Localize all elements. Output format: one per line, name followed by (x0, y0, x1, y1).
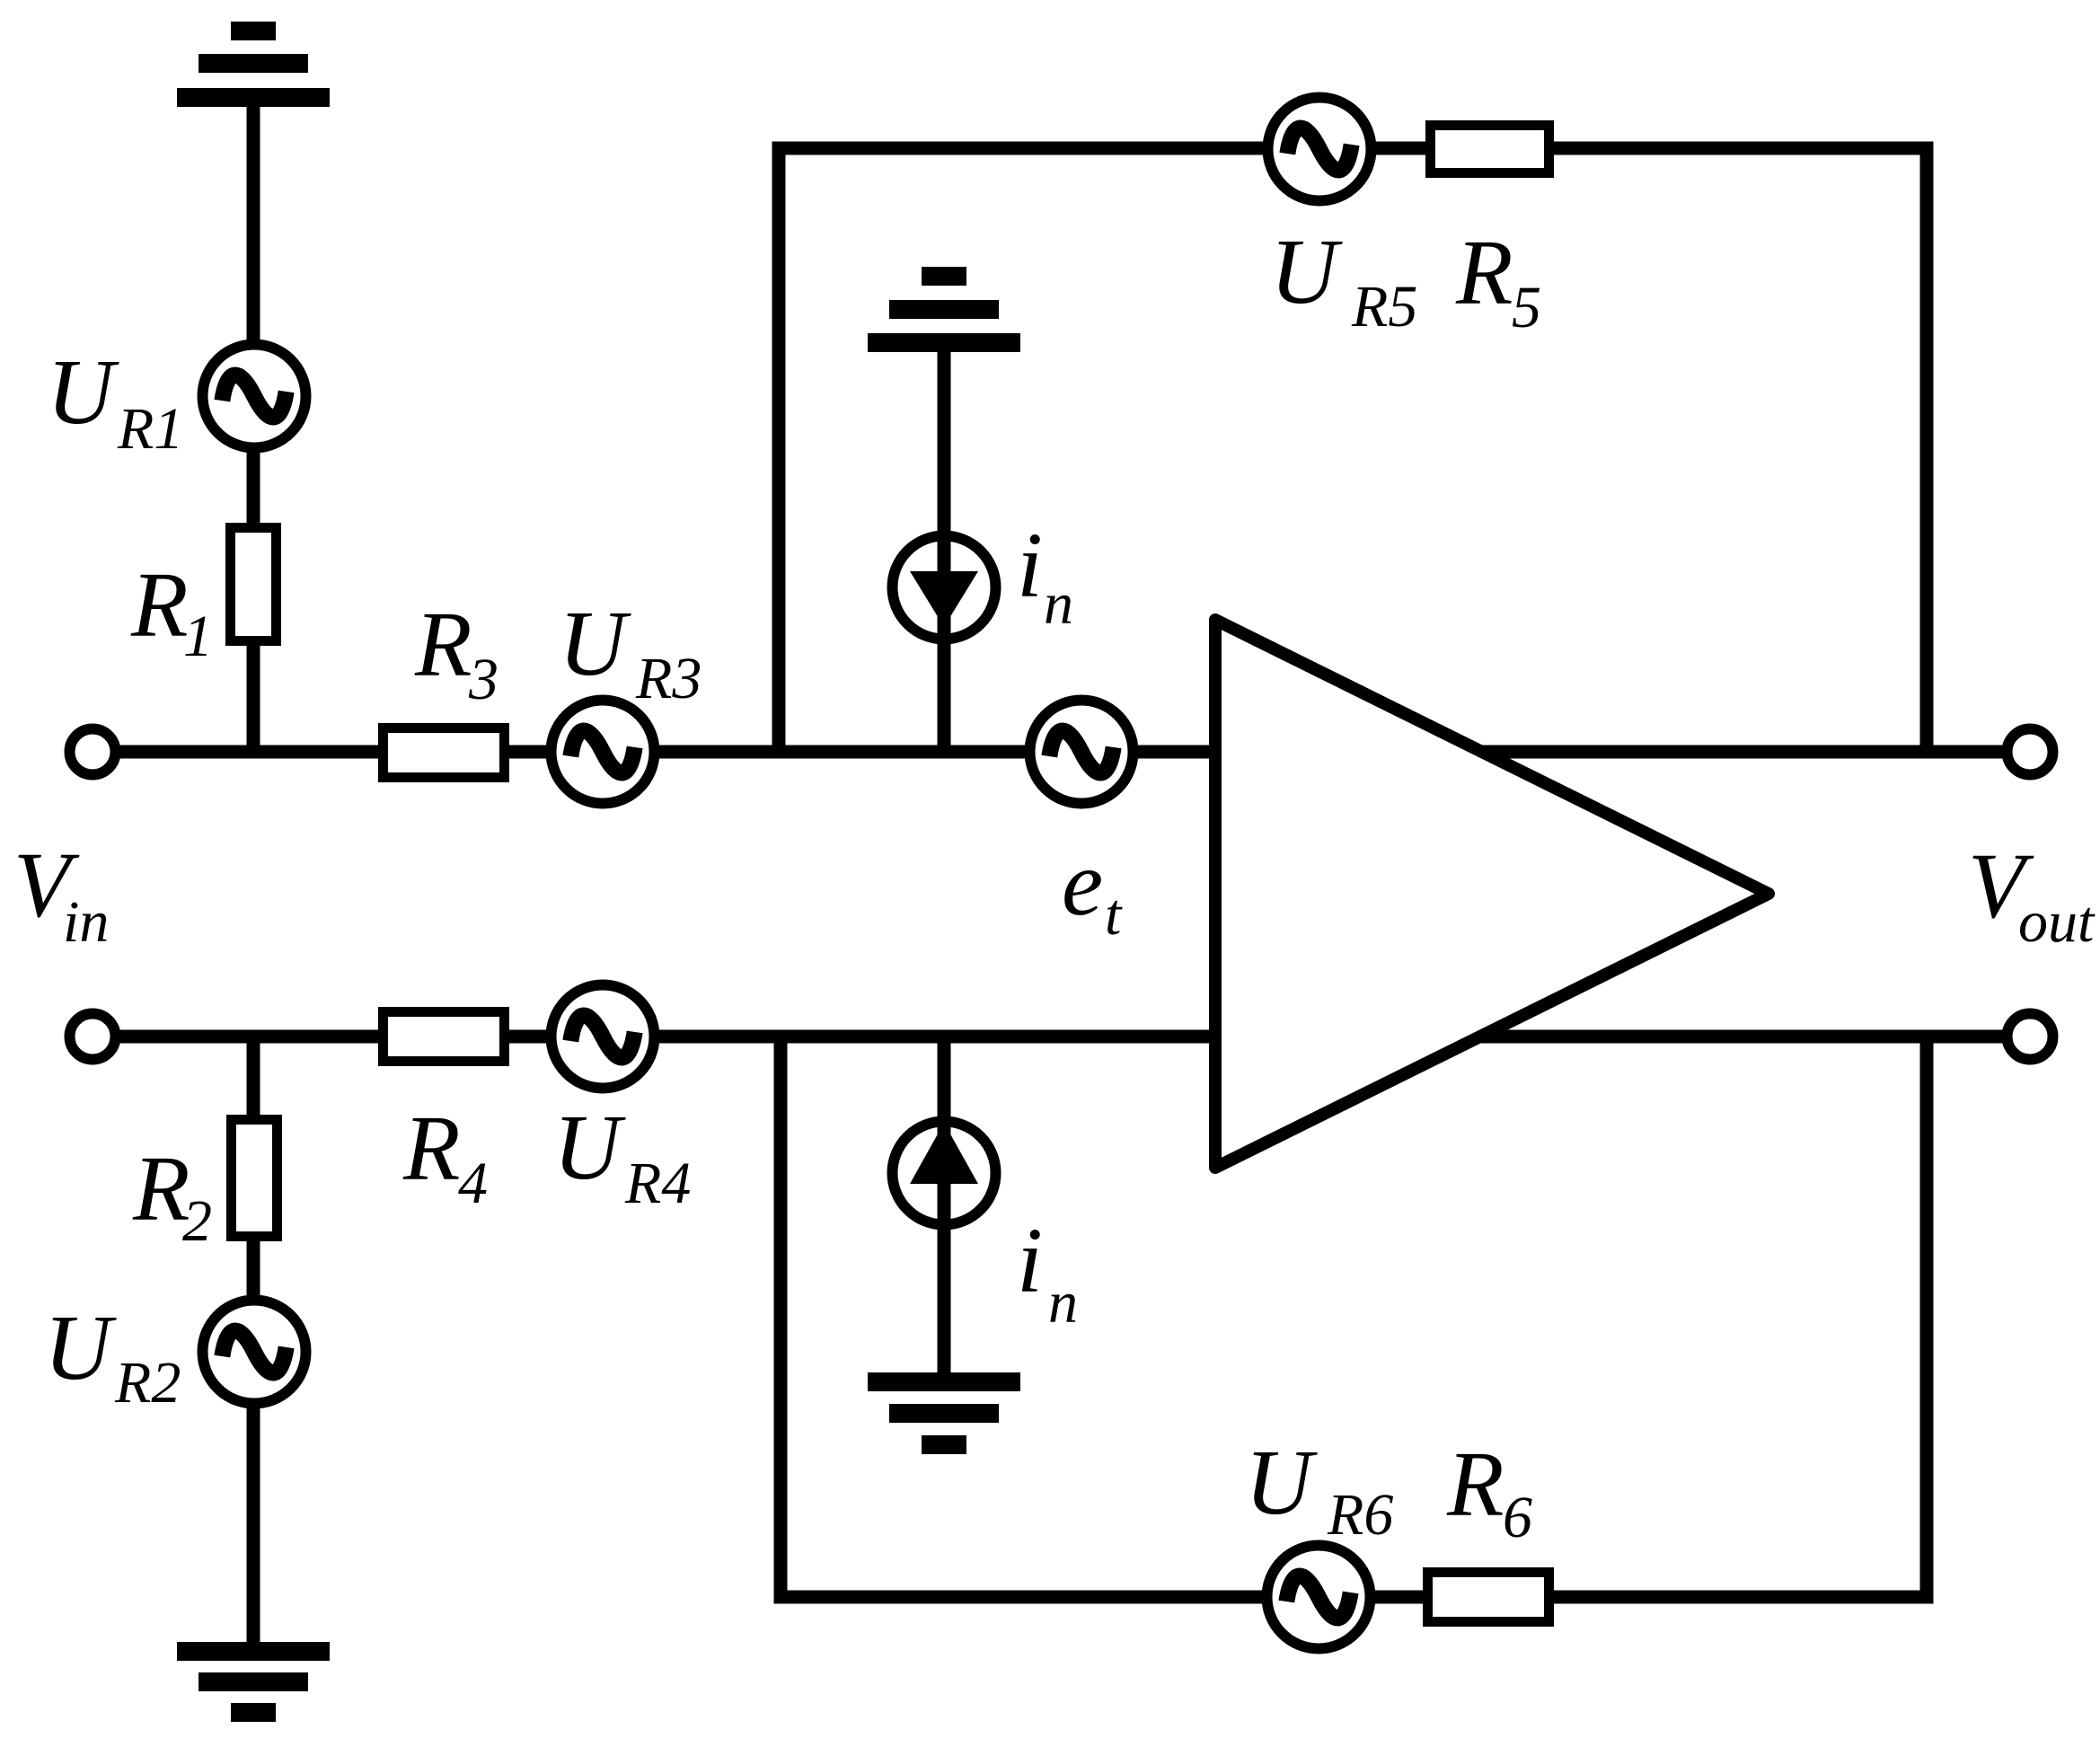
resistor R2 (232, 1120, 278, 1237)
svg-text:n: n (1044, 571, 1073, 637)
svg-text:R2: R2 (114, 1350, 181, 1416)
svg-text:U: U (1270, 220, 1343, 323)
terminal Vout+ (2007, 729, 2053, 775)
svg-text:5: 5 (1512, 275, 1541, 340)
wire R2 branch vertical (247, 1037, 260, 1654)
AC source U_R6 (1267, 1546, 1371, 1649)
wire in branch bottom vertical (938, 1037, 951, 1385)
terminal Vin+ (70, 729, 116, 775)
svg-text:U: U (1245, 1431, 1318, 1534)
ground bottom-left (177, 1642, 330, 1722)
current source in top (893, 536, 996, 640)
wire top output rail (1437, 746, 2030, 759)
resistor R4 (384, 1012, 505, 1062)
svg-text:R4: R4 (624, 1151, 691, 1216)
resistor R1 (231, 528, 277, 641)
svg-text:in: in (63, 889, 109, 955)
AC source U_R4 (551, 985, 655, 1089)
resistor R6 (1428, 1573, 1549, 1622)
svg-text:R: R (402, 1097, 461, 1200)
wire in branch top vertical (938, 346, 951, 752)
wire feedback loop R5 (779, 148, 1927, 752)
ground bottom-middle (868, 1372, 1020, 1454)
svg-text:R: R (130, 553, 189, 657)
svg-text:out: out (2018, 889, 2096, 955)
terminal Vin- (70, 1014, 116, 1060)
svg-text:U: U (553, 1096, 626, 1199)
svg-text:U: U (47, 340, 119, 444)
resistor R5 (1431, 126, 1549, 173)
svg-text:e: e (1062, 832, 1103, 935)
svg-text:i: i (1017, 514, 1043, 617)
svg-text:t: t (1105, 882, 1123, 948)
svg-text:R6: R6 (1327, 1482, 1393, 1548)
svg-text:U: U (44, 1296, 117, 1399)
wire R1 branch vertical (247, 101, 260, 752)
ground top-left (177, 22, 330, 107)
AC source U_R2 (203, 1301, 306, 1404)
svg-text:4: 4 (458, 1151, 488, 1216)
svg-text:R: R (414, 593, 472, 696)
AC source U_R3 (551, 701, 655, 804)
ground top-middle (868, 267, 1020, 352)
svg-text:R: R (1446, 1433, 1504, 1536)
AC source U_R5 (1268, 98, 1372, 201)
wire feedback loop R6 (781, 1037, 1927, 1597)
resistor R3 (384, 728, 505, 778)
svg-text:R1: R1 (117, 396, 183, 462)
svg-text:R: R (1455, 221, 1513, 324)
wire bottom input rail Vin- to op-amp (93, 1030, 1215, 1044)
svg-text:3: 3 (468, 647, 499, 712)
svg-text:i: i (1017, 1209, 1043, 1312)
svg-text:6: 6 (1503, 1485, 1532, 1550)
wire bottom output rail (1437, 1030, 2030, 1044)
op-amp U1 (1215, 620, 1769, 1168)
svg-text:n: n (1048, 1270, 1078, 1336)
current source in bottom (893, 1122, 996, 1225)
wire top input rail Vin+ to op-amp (93, 746, 1215, 759)
terminal Vout- (2007, 1014, 2053, 1060)
svg-text:R: R (132, 1137, 190, 1240)
svg-text:R5: R5 (1351, 274, 1417, 340)
svg-text:2: 2 (182, 1188, 212, 1254)
AC source et (1030, 701, 1134, 804)
svg-text:U: U (559, 592, 631, 695)
svg-text:1: 1 (183, 604, 213, 669)
AC source U_R1 (203, 345, 306, 448)
svg-text:R3: R3 (635, 646, 701, 711)
